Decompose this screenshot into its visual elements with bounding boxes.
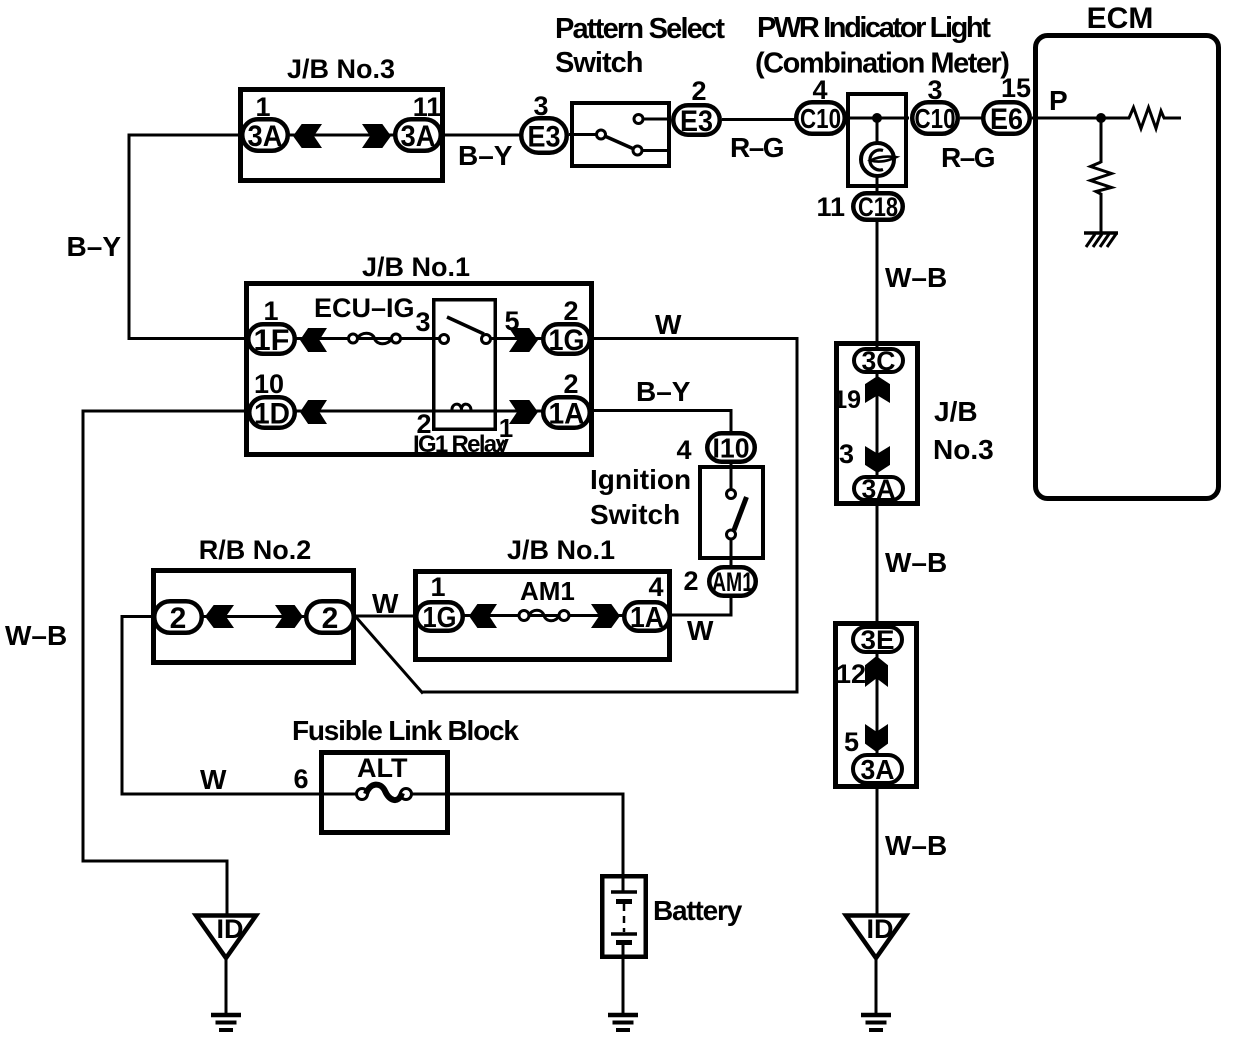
svg-text:Pattern Select: Pattern Select [555,13,725,45]
svg-text:AM1: AM1 [520,576,575,606]
wire 3A to 3A inside J/B No.3 [288,134,395,137]
wire 3A to E3 [443,134,521,137]
wire 2 to 1G W [354,615,416,618]
svg-text:Ignition: Ignition [590,464,691,495]
svg-text:B–Y: B–Y [67,231,122,262]
wire 3A to 3E W-B [876,504,879,627]
connector I10 [707,433,755,464]
switch contact lower [633,146,642,155]
svg-text:C10: C10 [800,103,841,134]
svg-text:Fusible Link Block: Fusible Link Block [292,715,519,746]
svg-text:5: 5 [504,306,519,336]
wire diagonal to R/B No.2 [356,617,424,694]
switch contact left [597,130,606,139]
arrow right at 1A [509,400,538,424]
wire left 2 of R/B No.2 to ALT W [122,615,359,796]
svg-text:3A: 3A [401,120,436,153]
ground chassis in ECM [1084,233,1118,247]
wire ALT to battery [409,793,625,877]
svg-text:ID: ID [867,914,894,944]
svg-text:1: 1 [430,572,445,602]
battery plate top long [611,890,637,894]
wire 1G right to corner W [590,337,799,694]
svg-text:2: 2 [322,602,339,635]
battery box [602,876,646,957]
svg-text:3: 3 [415,307,430,337]
wire AM1 down to 1A W [670,596,733,617]
svg-text:R–G: R–G [941,142,995,173]
ground point ID left [196,914,256,958]
wire 2 to 2 inside [202,615,308,618]
wire 1G to 1A inside [463,614,624,617]
svg-text:W–B: W–B [885,547,947,578]
battery plate top short [616,899,632,904]
connector 3A right [395,119,441,153]
svg-text:W–B: W–B [885,262,947,293]
switch lever pattern select [604,136,636,150]
fuse AM1 [519,610,569,621]
svg-text:1G: 1G [549,324,585,357]
ignition switch box [700,467,763,558]
wire resistor to ground [1100,193,1103,233]
connector 2 right [306,601,354,635]
svg-text:3A: 3A [248,120,283,153]
wire corner to diagonal [422,691,799,694]
junction dot in meter [872,113,882,123]
connector E3 left [521,118,567,153]
wire battery to ground [622,957,625,1015]
svg-text:C18: C18 [858,192,898,222]
battery plate bottom short [616,940,632,945]
svg-text:AM1: AM1 [712,567,753,597]
wire C10 to C10 through meter [846,117,909,120]
junction block J/B No.3 box [241,90,443,181]
connector 3E [853,625,902,655]
svg-text:3A: 3A [861,754,895,785]
arrow up pin 19 [865,376,890,403]
svg-text:2: 2 [563,369,578,399]
svg-text:1D: 1D [254,397,290,430]
svg-text:No.3: No.3 [933,434,994,465]
relay block R/B No.2 box [154,571,354,663]
svg-text:J/B No.1: J/B No.1 [362,252,470,282]
arrow left in R/B No.2 [205,605,234,628]
label Ignition Switch [590,464,691,530]
svg-text:1F: 1F [254,324,290,357]
wire 1F row inside [295,337,543,340]
svg-text:W: W [655,309,682,340]
wire 1D left W-B [82,410,250,915]
svg-text:R/B No.2: R/B No.2 [199,535,312,565]
connector 3A lower right [853,754,902,785]
svg-text:ID: ID [217,914,244,944]
arrow right in R/B No.2 [275,605,303,628]
combination meter box [848,94,906,186]
connector C18 [853,192,903,222]
connector E6 [983,102,1030,136]
svg-text:4: 4 [676,435,691,465]
ECM box [1036,36,1219,499]
connector 1A [543,397,590,430]
wire lamp to C18 [876,174,879,192]
svg-text:2: 2 [691,76,706,106]
relay contact left [440,335,449,344]
svg-text:3A: 3A [862,474,896,504]
wire 3C to 3A inside [876,372,879,477]
label Pattern Select Switch [555,13,725,79]
ignition contact bottom [727,530,736,539]
connector 1G [543,324,590,357]
svg-text:J/B No.3: J/B No.3 [287,54,395,84]
svg-text:Switch: Switch [590,499,680,530]
wire I10 to switch [730,462,733,494]
connector C10 left [796,102,845,134]
fuse ECU-IG [349,333,401,344]
connector AM1 [709,567,756,597]
wire right ID to ground [875,958,878,1015]
svg-text:Switch: Switch [555,47,642,79]
wire into battery [622,874,625,892]
svg-text:W–B: W–B [5,620,67,651]
junction block J/B No.1 box [247,284,592,455]
connector 1G lower [416,602,463,634]
svg-text:C10: C10 [915,103,956,134]
wire E3 to C10 R-G [722,118,796,121]
wire 1D row inside [295,410,543,413]
svg-text:11: 11 [816,192,845,222]
relay coil IG1 [452,404,471,411]
svg-text:W: W [200,764,227,795]
svg-text:2: 2 [683,566,698,596]
svg-text:10: 10 [254,369,284,399]
wire battery internal bottom [622,942,625,959]
junction block right lower box [836,624,917,787]
relay pin 1 [497,413,513,453]
svg-text:5: 5 [844,727,859,757]
arrow left at 1G lower [469,604,497,628]
arrow right at 1A lower [591,604,620,628]
arrow right at 1G [509,328,538,352]
battery dashed line [623,904,626,932]
svg-text:3E: 3E [861,625,895,655]
wire 3E to 3A inside [876,652,879,755]
connector 1F [248,324,295,357]
svg-text:W: W [372,588,399,619]
junction block J/B No.3 right box [837,344,918,504]
indicator lamp PWR [861,143,896,176]
wire 1A to I10 B-Y [590,409,733,433]
svg-text:ALT: ALT [357,753,408,783]
connector 3A left [242,119,288,153]
IG1 relay box [434,300,496,430]
svg-text:J/B: J/B [934,396,978,427]
wire resistor stub [1163,117,1181,120]
wire 3A to right ID W-B [876,783,879,914]
pattern select switch box [572,103,669,166]
svg-text:Battery: Battery [653,895,743,926]
resistor horizontal in ECM [1129,108,1164,129]
svg-text:W–B: W–B [885,830,947,861]
svg-text:19: 19 [833,386,861,414]
connector E3 right [673,105,720,138]
svg-text:PWR Indicator Light: PWR Indicator Light [757,12,991,44]
junction dot node P [1096,113,1106,123]
svg-text:IG1 Relay: IG1 Relay [413,431,509,458]
svg-text:12: 12 [836,659,866,689]
svg-text:R–G: R–G [730,132,784,163]
label J/B No.3 right [933,396,994,465]
arrow left at 1D [300,400,327,424]
svg-text:2: 2 [170,602,187,635]
svg-text:W: W [687,615,714,646]
junction block J/B No.1 lower box [416,572,670,660]
wire left ID to ground [225,958,228,1015]
connector 3C [854,346,903,376]
wire node P down [1100,118,1103,163]
svg-text:B–Y: B–Y [458,140,513,171]
svg-text:J/B No.1: J/B No.1 [507,535,615,565]
label PWR Indicator Light [755,12,1009,80]
svg-text:3C: 3C [862,346,896,376]
wire dot to lamp [876,118,879,144]
connector 1A lower [624,602,670,634]
fusible link block box [322,753,448,833]
connector 2 left [154,601,202,635]
arrow down pin 5 [865,724,888,752]
wire switch lower contact out [639,149,671,152]
svg-text:1G: 1G [423,602,457,634]
relay contact right [482,335,491,344]
svg-text:6: 6 [293,764,308,794]
wire switch upper contact out [640,118,671,121]
connector C10 right [912,102,958,134]
battery plate bottom long [611,932,637,936]
ignition contact top [727,490,736,499]
svg-text:1: 1 [263,296,278,326]
connector 3A upper right [854,474,903,504]
resistor vertical in ECM [1091,162,1112,194]
svg-text:15: 15 [1001,73,1031,103]
svg-text:(Combination Meter): (Combination Meter) [755,48,1009,80]
arrow right in J/B No.3 [362,124,391,148]
relay switch lever [447,317,484,334]
svg-text:E3: E3 [528,120,561,153]
svg-text:1A: 1A [630,602,664,634]
wire C10 to E6 R-G [960,117,983,120]
connector 1D [249,397,295,430]
svg-text:P: P [1049,85,1068,116]
arrow left in J/B No.3 [293,124,322,148]
svg-text:ECM: ECM [1087,2,1154,35]
svg-text:2: 2 [563,296,578,326]
fuse ALT fusible link [357,785,412,801]
wire E3 into switch [569,133,599,136]
svg-text:E3: E3 [680,105,713,138]
arrow down pin 3 [865,446,890,473]
ground battery [608,1015,638,1030]
ignition switch lever [734,497,747,530]
svg-text:I10: I10 [713,433,750,464]
svg-text:3: 3 [839,439,854,469]
ground bars left [211,1015,241,1030]
svg-text:E6: E6 [990,103,1023,136]
wire C18 to 3C W-B [876,220,879,349]
wire E6 to node P [1032,117,1130,120]
arrow up pin 12 [865,656,888,687]
wire switch to AM1 [730,535,733,567]
switch contact upper [634,115,643,124]
svg-text:B–Y: B–Y [636,376,691,407]
ground bars right [861,1015,891,1030]
svg-text:1A: 1A [549,397,585,430]
arrow left at 1F [300,328,327,352]
svg-text:ECU–IG: ECU–IG [314,293,415,323]
wire B-Y from J/B No.3 pin1 down-left to 1F [129,134,248,341]
ground point ID right [846,914,906,958]
svg-text:4: 4 [648,572,663,602]
